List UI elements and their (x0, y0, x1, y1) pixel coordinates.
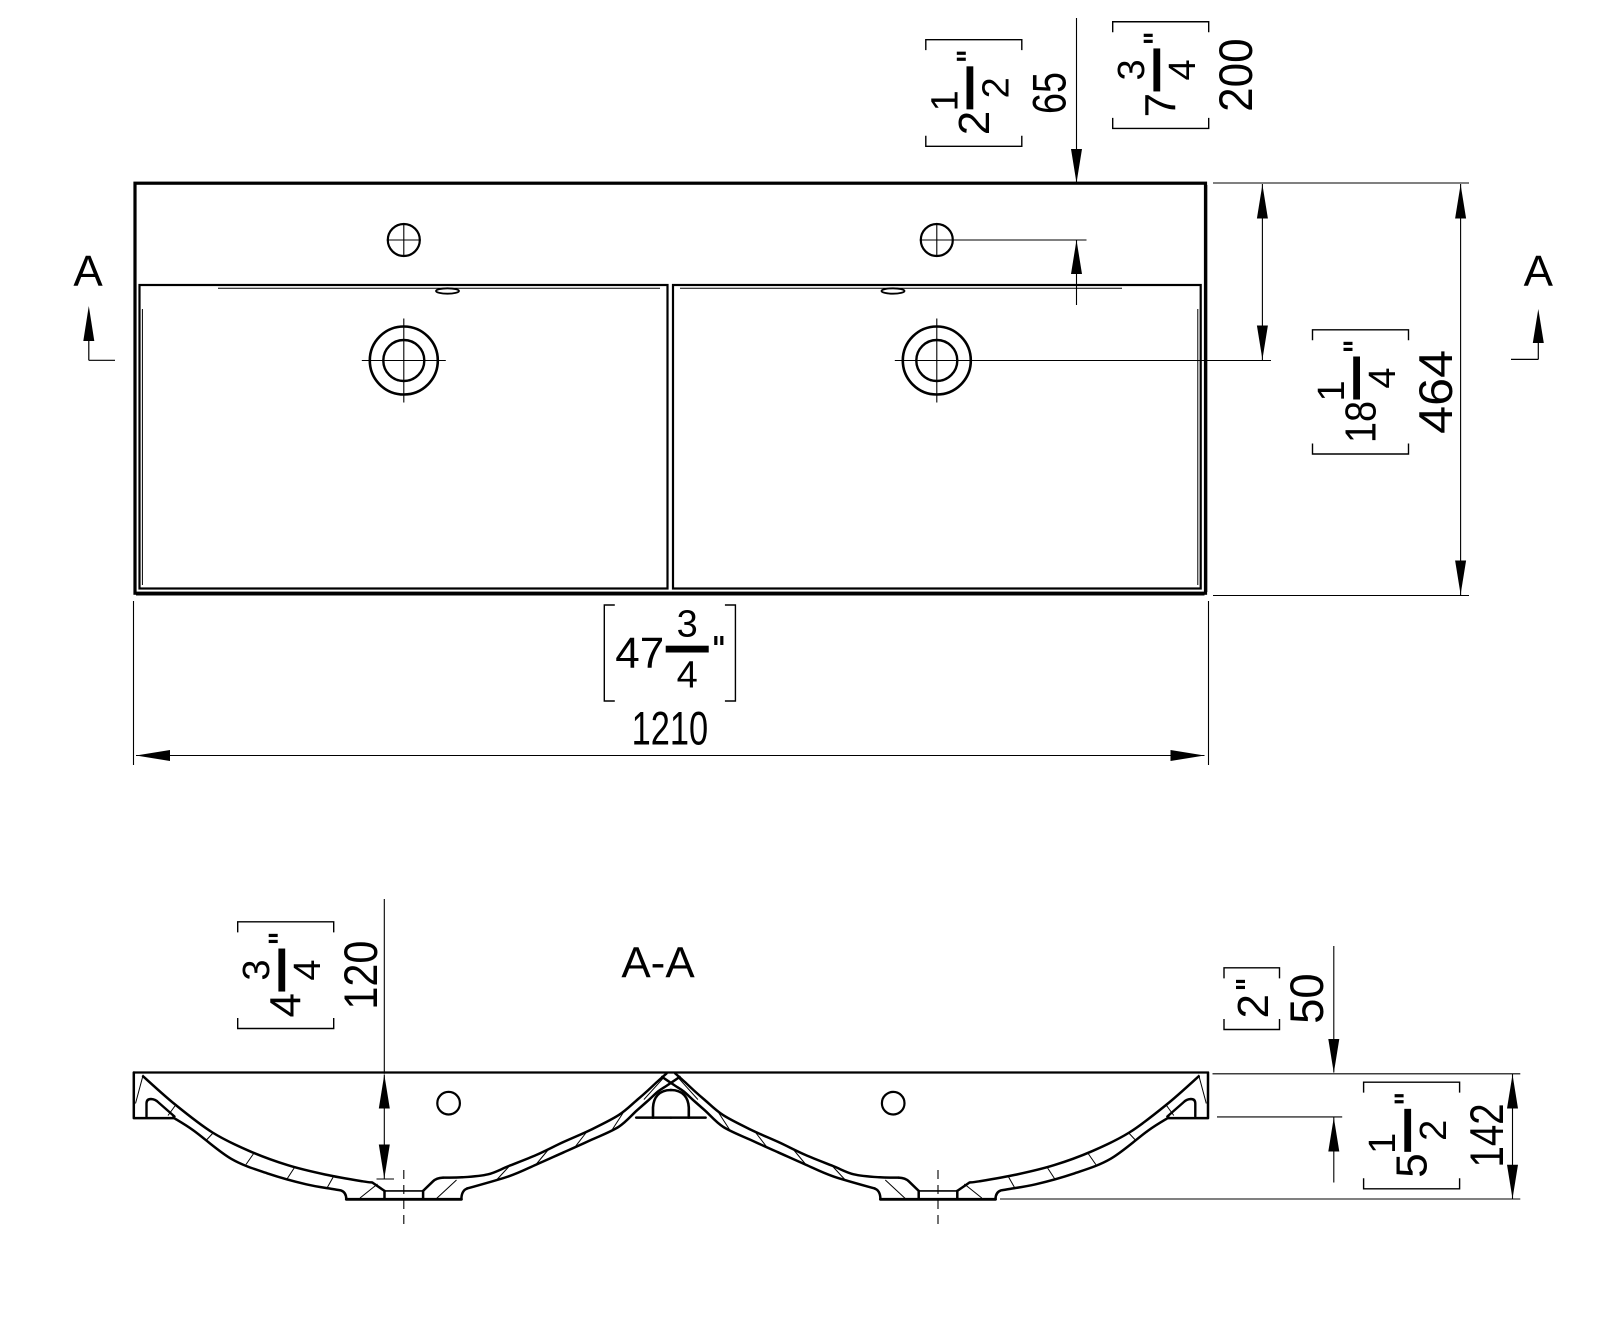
svg-text:4: 4 (1162, 59, 1204, 80)
svg-text:18: 18 (1337, 401, 1386, 443)
svg-text:464: 464 (1409, 350, 1462, 434)
svg-text:7: 7 (1137, 93, 1186, 117)
svg-text:4: 4 (262, 993, 311, 1017)
svg-text:1210: 1210 (632, 702, 709, 755)
svg-text:2: 2 (1413, 1120, 1455, 1141)
svg-text:200: 200 (1209, 38, 1262, 112)
svg-text:1: 1 (924, 90, 966, 111)
svg-text:65: 65 (1022, 72, 1075, 114)
svg-text:A-A: A-A (621, 939, 695, 988)
svg-text:3: 3 (236, 959, 278, 980)
svg-text:4: 4 (287, 959, 329, 980)
svg-text:1: 1 (1362, 1133, 1404, 1154)
svg-text:A: A (73, 247, 103, 296)
svg-text:120: 120 (334, 941, 387, 1010)
svg-text:5: 5 (1388, 1153, 1437, 1177)
svg-text:2: 2 (950, 111, 999, 135)
svg-text:4: 4 (1362, 367, 1404, 388)
svg-text:2: 2 (1229, 994, 1278, 1018)
svg-text:1: 1 (1311, 380, 1353, 401)
svg-text:3: 3 (677, 604, 698, 646)
svg-text:3: 3 (1111, 59, 1153, 80)
svg-text:4: 4 (677, 655, 698, 697)
svg-text:50: 50 (1280, 973, 1333, 1024)
svg-text:2: 2 (975, 77, 1017, 98)
svg-text:47: 47 (615, 629, 664, 678)
svg-text:142: 142 (1460, 1103, 1513, 1167)
svg-text:A: A (1524, 247, 1554, 296)
